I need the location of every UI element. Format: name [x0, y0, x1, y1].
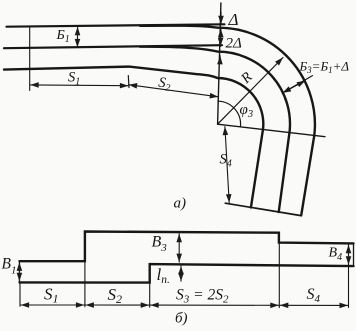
phi3 angle arc: [218, 101, 241, 127]
svg-text:В1: В1: [2, 256, 17, 277]
top edge straight line (construction extension to tangent): [7, 24, 225, 26]
B3 height double arrow (bottom): [178, 234, 180, 262]
svg-text:Б1: Б1: [56, 28, 70, 45]
S1 dimension segment (bottom): [21, 304, 85, 306]
B1 width double arrow: [76, 27, 78, 48]
svg-text:S1: S1: [68, 70, 80, 88]
svg-text:S3 = 2S2: S3 = 2S2: [176, 287, 229, 306]
svg-text:Б3=Б1+Δ: Б3=Б1+Δ: [299, 59, 350, 76]
B1 height double arrow (bottom): [18, 262, 20, 281]
middle road edge curve (arc of bend, middle): [140, 47, 290, 212]
bottom profile right closure: [353, 243, 355, 266]
inner road edge with widening transition and inner arc: [4, 67, 263, 208]
S2 dimension line (sloped): [129, 85, 219, 97]
svg-text:S1: S1: [44, 285, 59, 306]
B4 height double arrow (bottom): [348, 245, 350, 265]
extension line at x=85: [84, 261, 86, 307]
svg-text:В3: В3: [152, 234, 168, 255]
S4 dimension segment (bottom): [280, 304, 348, 306]
extension line at x=279: [278, 243, 280, 308]
bottom section line closing road stub: [225, 203, 301, 215]
bottom profile top outline: [20, 232, 354, 262]
radius R line with arrow to outer arc: [218, 58, 283, 125]
delta dimension upper arrow: [220, 12, 222, 24]
bottom profile bottom outline with ln step: [20, 264, 354, 283]
svg-text:φ3: φ3: [240, 102, 254, 120]
S1 dimension extension line at left: [29, 27, 31, 91]
S3 dimension segment (bottom): [150, 304, 279, 306]
svg-text:В4: В4: [329, 246, 343, 264]
tangent vertical line through bend center: [218, 3, 221, 124]
S1 dimension line: [30, 84, 128, 87]
delta dimension lower arrow: [220, 29, 222, 35]
middle edge straight line (construction extension to tangent): [4, 45, 222, 48]
B3 width leader line: [283, 76, 313, 93]
extension line at x=150: [149, 283, 151, 308]
bottom profile left closure: [19, 261, 21, 282]
2-delta dimension lower arrow: [219, 56, 221, 61]
svg-text:б): б): [175, 311, 188, 327]
svg-text:ln.: ln.: [157, 265, 170, 286]
svg-text:S2: S2: [108, 285, 123, 306]
S4 dimension line (top figure): [225, 127, 229, 203]
extension line at x=348: [348, 244, 350, 308]
svg-text:2Δ: 2Δ: [226, 36, 243, 52]
S1/S2 boundary tick: [127, 76, 130, 88]
ln height double arrow (bottom): [180, 266, 182, 281]
svg-text:S2: S2: [157, 75, 171, 94]
svg-text:S4: S4: [307, 286, 321, 305]
S2 dimension segment (bottom): [85, 304, 149, 306]
outer road edge curve (arc of bend, outer): [140, 26, 315, 216]
extension line at x=20: [19, 282, 21, 306]
end-of-bend section line through arc ends: [218, 124, 326, 137]
2-delta dimension upper arrow: [219, 37, 221, 46]
B3 width facing arrows between arcs: [283, 81, 306, 93]
svg-text:а): а): [174, 196, 187, 212]
svg-text:Δ: Δ: [228, 10, 239, 29]
svg-text:S4: S4: [220, 152, 232, 170]
